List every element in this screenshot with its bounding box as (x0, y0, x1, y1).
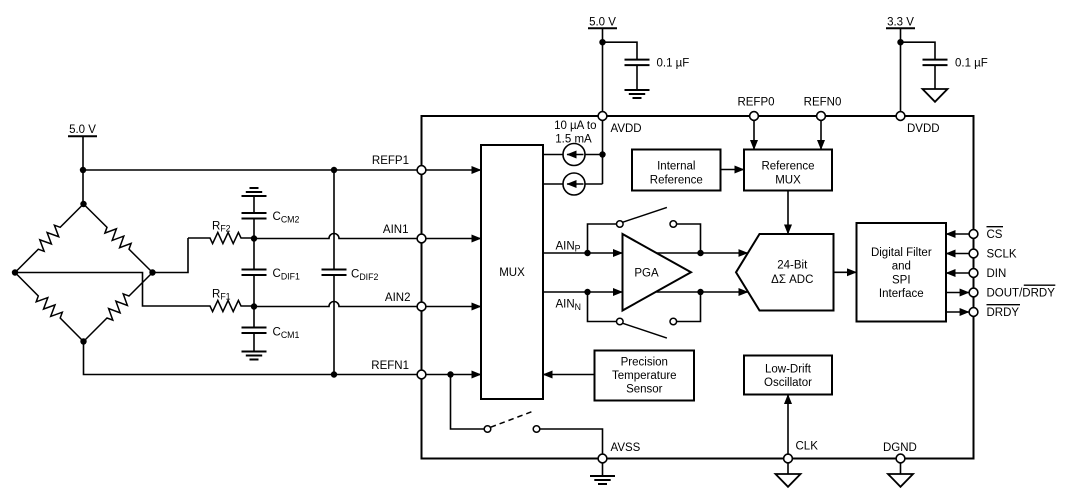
bridge resistor top-right (84, 204, 153, 273)
svg-text:CLK: CLK (796, 440, 819, 452)
svg-text:Interface: Interface (879, 288, 924, 300)
node REFN1 internal junction (447, 371, 453, 377)
pin AIN1 (417, 234, 426, 243)
wire bypass switch to PGA output bottom (677, 292, 701, 322)
arrow Reference MUX to ADC (787, 191, 789, 235)
current source I2 10uA-1.5mA (563, 173, 585, 195)
arrow SCLK pin to Digital Filter (946, 253, 969, 255)
svg-text:Reference: Reference (650, 174, 703, 186)
bridge node right (149, 269, 155, 275)
svg-text:PGA: PGA (634, 267, 659, 279)
svg-text:3.3 V: 3.3 V (887, 16, 914, 28)
node CDIF2 top junction (331, 167, 337, 173)
node CDIF2 bottom junction (331, 371, 337, 377)
current source I1 10uA-1.5mA (563, 144, 585, 166)
svg-text:Precision: Precision (621, 357, 668, 369)
svg-text:AIN1: AIN1 (383, 224, 409, 236)
svg-text:24-Bit: 24-Bit (777, 259, 808, 271)
pin REFN1 (417, 370, 426, 379)
PGA amplifier (623, 234, 692, 311)
wire AINP to bypass switch (588, 224, 617, 253)
wire REFN1 to AVSS switch (451, 375, 485, 430)
svg-text:5.0 V: 5.0 V (69, 124, 96, 136)
svg-text:MUX: MUX (499, 267, 525, 279)
wire to AVDD bypass cap (603, 42, 638, 59)
arrow Temperature Sensor to MUX (543, 374, 595, 376)
svg-text:0.1 µF: 0.1 µF (955, 57, 988, 69)
bridge node top (80, 201, 86, 207)
svg-text:REFP0: REFP0 (737, 96, 774, 108)
svg-text:1.5 mA: 1.5 mA (555, 133, 592, 145)
wire bridge right output to RF2 (153, 238, 189, 273)
wire I1 to AVDD line (585, 154, 603, 156)
resistor RF2 (188, 232, 254, 243)
wire REFN1 net (84, 342, 422, 375)
pin DOUT/DRDY (969, 288, 978, 297)
svg-text:ΔΣ ADC: ΔΣ ADC (771, 274, 813, 286)
node PGA output top junction (697, 250, 703, 256)
wire I2 to AVDD line (585, 183, 603, 185)
pin CS (969, 230, 978, 239)
arrow AIN2 into MUX (422, 306, 482, 308)
svg-text:and: and (892, 261, 911, 273)
Digital Filter and SPI Interface block (857, 223, 947, 322)
input MUX block (481, 145, 543, 399)
node RF2/AIN1 junction (251, 235, 257, 241)
wire 5.0 V to bridge top (82, 136, 84, 204)
wire 5.0 V to AVDD pin (602, 28, 604, 116)
switch S2 blade (623, 323, 667, 338)
svg-text:REFN1: REFN1 (371, 360, 409, 372)
switch S3 contact right (533, 426, 540, 433)
Internal Reference block (632, 150, 721, 191)
svg-text:Digital Filter: Digital Filter (871, 247, 932, 259)
arrow Digital Filter to DOUT/DRDY pin (946, 292, 969, 294)
arrow REFP1 into MUX (422, 169, 482, 171)
wire bridge left output to RF1 (15, 273, 188, 307)
svg-text:Internal: Internal (657, 160, 695, 172)
wire AIN2 net with hop (254, 302, 422, 307)
svg-text:REFN0: REFN0 (804, 96, 842, 108)
capacitor CDIF2 (333, 170, 335, 270)
wire PGA output top to ADC (657, 252, 748, 254)
node DVDD cap junction (897, 39, 903, 45)
svg-text:DIN: DIN (987, 268, 1007, 280)
wire AINN to bypass switch (588, 292, 617, 322)
24-Bit Delta-Sigma ADC block (736, 234, 834, 311)
Reference MUX block (744, 150, 832, 191)
switch S2 contact right (670, 318, 677, 325)
pin REFN0 (817, 112, 826, 121)
switch S2 contact left (617, 318, 624, 325)
svg-text:DRDY: DRDY (987, 307, 1020, 319)
wire bypass switch to PGA output (677, 224, 701, 253)
svg-text:MUX: MUX (775, 174, 801, 186)
wire 3.3 V to DVDD pin (900, 28, 902, 116)
node AINN junction (584, 289, 590, 295)
svg-text:AIN2: AIN2 (385, 292, 411, 304)
switch S1 contact left (617, 221, 624, 228)
svg-text:Sensor: Sensor (626, 384, 663, 396)
wire AIN1 net with hop (254, 234, 422, 239)
svg-text:DGND: DGND (883, 442, 917, 454)
ground below CCM1 (242, 351, 267, 353)
svg-text:SCLK: SCLK (987, 249, 1017, 261)
ADC chip outline U1 (422, 116, 974, 459)
Low-Drift Oscillator block (744, 356, 832, 395)
node RF1/AIN2 junction (251, 303, 257, 309)
node junction on REFP1 line (80, 167, 86, 173)
node AVDD cap junction (599, 39, 605, 45)
svg-text:Reference: Reference (761, 160, 814, 172)
pin REFP1 (417, 166, 426, 175)
arrow REFN1 into MUX (422, 374, 482, 376)
wire AINN MUX to PGA (543, 291, 623, 293)
capacitor CCM1 (253, 306, 255, 328)
svg-text:REFP1: REFP1 (372, 155, 409, 167)
arrow DIN pin to Digital Filter (946, 272, 969, 274)
svg-text:Low-Drift: Low-Drift (765, 364, 812, 376)
pin AVDD (598, 112, 607, 121)
svg-text:5.0 V: 5.0 V (589, 16, 616, 28)
wire I1 to MUX (543, 154, 563, 156)
ground below AVSS (602, 463, 604, 476)
node AINP junction (584, 250, 590, 256)
svg-text:AVSS: AVSS (611, 442, 641, 454)
switch S3 blade dashed (491, 412, 532, 427)
arrow Internal Reference to Reference MUX (721, 169, 745, 171)
pin DGND (896, 454, 905, 463)
pin AVSS (598, 454, 607, 463)
svg-text:DOUT/DRDY: DOUT/DRDY (987, 288, 1056, 300)
capacitor 0.1 uF (AVDD) (625, 59, 650, 61)
arrow REFP0 into Reference MUX (753, 116, 755, 150)
svg-text:CS: CS (987, 229, 1003, 241)
wire AINP MUX to PGA (543, 252, 623, 254)
arrow Digital Filter to DRDY pin (946, 311, 969, 313)
arrow REFN0 into Reference MUX (820, 116, 822, 150)
ground below AVDD cap (625, 89, 650, 91)
wire REFP1 net (83, 169, 422, 171)
Precision Temperature Sensor block (595, 351, 695, 401)
ground above CCM2 (242, 195, 267, 197)
ground triangle below CLK (787, 463, 789, 474)
pin DVDD (896, 112, 905, 121)
svg-text:AVDD: AVDD (611, 123, 642, 135)
arrow CLK to Low-Drift Oscillator (787, 395, 789, 455)
svg-text:10 µA to: 10 µA to (554, 120, 596, 132)
capacitor 0.1 uF (DVDD) (923, 59, 948, 61)
svg-text:0.1 µF: 0.1 µF (657, 57, 690, 69)
switch S1 contact right (670, 221, 677, 228)
bridge node left (12, 269, 18, 275)
arrow ADC to Digital Filter (834, 271, 857, 273)
switch S1 blade (623, 207, 667, 222)
node PGA output bottom junction (697, 289, 703, 295)
wire AVDD to current sources (602, 116, 604, 184)
svg-text:Oscillator: Oscillator (764, 377, 812, 389)
capacitor CDIF1 (253, 238, 255, 270)
node current source junction (599, 151, 605, 157)
svg-text:Temperature: Temperature (612, 370, 677, 382)
bridge node bottom (80, 338, 86, 344)
arrow AIN1 into MUX (422, 238, 482, 240)
bridge resistor top-left (15, 204, 84, 273)
ground triangle below DVDD cap (923, 89, 948, 102)
wire AVSS switch to AVSS pin (540, 429, 603, 459)
resistor RF1 (188, 300, 254, 311)
switch S3 contact left (484, 426, 491, 433)
pin DRDY (969, 308, 978, 317)
svg-text:SPI: SPI (892, 274, 911, 286)
capacitor CCM2 (253, 196, 255, 213)
pin DIN (969, 269, 978, 278)
ground triangle below DGND (900, 463, 902, 474)
pin AIN2 (417, 302, 426, 311)
wire I2 to MUX (543, 183, 563, 185)
pin CLK (784, 454, 793, 463)
svg-text:DVDD: DVDD (907, 123, 940, 135)
wire to DVDD bypass cap (901, 42, 936, 59)
arrow CS pin to Digital Filter (946, 233, 969, 235)
bridge resistor bottom-right (84, 273, 153, 342)
bridge resistor bottom-left (15, 273, 84, 342)
pin SCLK (969, 249, 978, 258)
pin REFP0 (750, 112, 759, 121)
wire PGA output bottom to ADC (657, 291, 749, 293)
